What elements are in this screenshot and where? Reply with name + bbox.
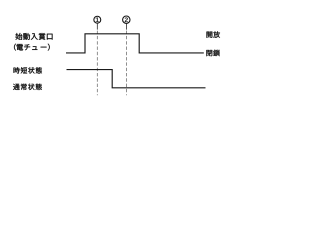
waveform: start-gate (electric tulip) open/close signal <box>66 34 204 53</box>
waveform: game state signal (time-reduced -> normal) <box>67 70 206 88</box>
dashed timeline at event 2 <box>126 31 128 96</box>
tick under circled 1 <box>96 24 98 30</box>
tick under circled 2 <box>126 24 128 30</box>
label: normal state <box>13 84 42 90</box>
dashed timeline at event 1 <box>96 31 98 96</box>
label: closed <box>206 50 219 56</box>
label: start winning gate (line 1) <box>16 33 53 40</box>
label: open <box>207 31 220 37</box>
label: (electric tulip) (line 2) <box>14 44 50 51</box>
label: time-reduced state <box>14 67 42 73</box>
circled number 2 marker <box>123 16 130 23</box>
circled number 1 marker <box>94 16 101 23</box>
